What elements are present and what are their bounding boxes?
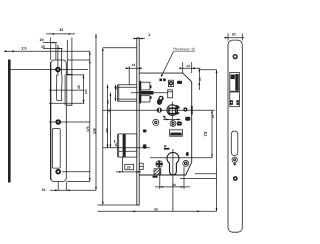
svg-text:18: 18 <box>211 114 215 118</box>
svg-text:245: 245 <box>105 128 109 133</box>
svg-text:8: 8 <box>164 116 166 120</box>
svg-text:15: 15 <box>198 77 202 81</box>
svg-text:35: 35 <box>106 100 110 104</box>
svg-text:20: 20 <box>232 33 236 37</box>
svg-text:Thickness 15: Thickness 15 <box>173 47 195 51</box>
svg-text:20: 20 <box>127 166 131 170</box>
svg-text:90: 90 <box>154 208 158 212</box>
svg-text:175: 175 <box>86 126 90 132</box>
svg-text:15: 15 <box>41 45 45 49</box>
svg-text:45: 45 <box>77 85 81 89</box>
svg-text:105: 105 <box>84 89 88 94</box>
svg-text:72: 72 <box>203 131 208 136</box>
svg-text:236: 236 <box>92 128 96 134</box>
svg-text:30: 30 <box>172 183 176 187</box>
svg-text:20: 20 <box>40 38 44 42</box>
svg-text:11: 11 <box>42 188 46 192</box>
svg-text:13: 13 <box>132 63 136 67</box>
svg-text:55: 55 <box>108 109 112 113</box>
svg-text:3: 3 <box>148 33 150 37</box>
svg-text:26: 26 <box>114 86 118 90</box>
svg-text:25: 25 <box>114 143 118 147</box>
svg-text:32: 32 <box>59 28 63 32</box>
svg-text:2.5: 2.5 <box>22 46 27 50</box>
svg-text:13: 13 <box>186 64 190 68</box>
